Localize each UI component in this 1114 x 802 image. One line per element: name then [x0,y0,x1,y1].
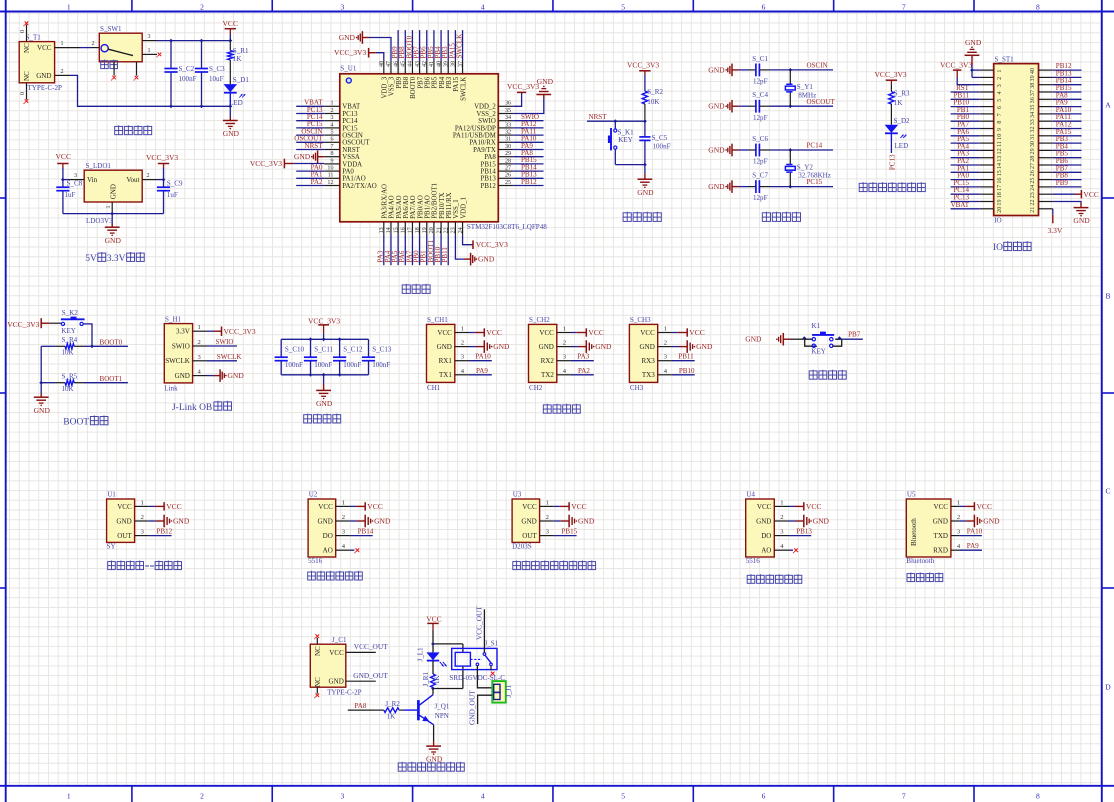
svg-text:4: 4 [330,122,333,128]
svg-text:AO: AO [323,547,333,555]
svg-text:Bluetooth: Bluetooth [906,557,934,565]
svg-text:J_J1: J_J1 [505,684,513,697]
svg-text:S_C3: S_C3 [209,65,225,73]
svg-text:12: 12 [327,180,333,186]
svg-text:S_R1: S_R1 [233,47,249,55]
svg-text:VCC: VCC [977,502,992,511]
svg-text:42: 42 [422,61,428,67]
svg-text:PA2: PA2 [578,367,590,375]
svg-text:PB11/RX: PB11/RX [446,192,453,218]
svg-text:PA10: PA10 [475,353,491,361]
svg-text:25: 25 [505,180,511,186]
svg-text:17: 17 [408,227,414,233]
svg-text:TX3: TX3 [642,371,655,379]
svg-text:2: 2 [563,340,566,347]
svg-text:11: 11 [997,141,1003,147]
svg-text:S_Y1: S_Y1 [797,83,814,91]
svg-text:U2: U2 [309,491,318,499]
svg-text:GND: GND [537,77,554,86]
svg-text:24: 24 [1030,185,1036,191]
svg-text:18: 18 [997,192,1003,198]
svg-text:5: 5 [621,2,625,11]
svg-text:10K: 10K [62,385,75,393]
svg-text:GND: GND [318,517,333,525]
svg-text:PC13: PC13 [342,111,358,118]
svg-text:21: 21 [1030,207,1036,213]
svg-text:VCC: VCC [1083,190,1098,199]
svg-text:Vout: Vout [126,176,139,184]
svg-text:5: 5 [330,130,333,136]
svg-text:U1: U1 [107,491,116,499]
svg-text:VCC: VCC [426,615,441,624]
svg-text:S_C7: S_C7 [752,172,768,180]
svg-text:4: 4 [481,791,485,800]
svg-text:2: 2 [200,2,204,11]
svg-text:VCC: VCC [539,329,554,337]
svg-text:6: 6 [997,106,1003,109]
svg-text:10K: 10K [647,98,660,106]
svg-text:10: 10 [327,166,333,172]
svg-text:7: 7 [902,2,906,11]
svg-text:GND: GND [578,517,595,526]
svg-text:S_C10: S_C10 [285,345,305,353]
svg-text:S_C6: S_C6 [752,135,768,143]
svg-text:PA11/USB/DM: PA11/USB/DM [453,133,496,140]
svg-text:0: 0 [20,92,26,95]
svg-text:VCC: VCC [806,502,821,511]
svg-text:VCC: VCC [56,152,71,161]
svg-text:VCC_3V3: VCC_3V3 [250,159,282,168]
svg-text:GND: GND [539,343,554,351]
svg-text:PA3: PA3 [577,353,589,361]
svg-text:VCC_3V3: VCC_3V3 [146,153,178,162]
svg-text:GND: GND [493,342,510,351]
svg-text:VCC: VCC [588,328,603,337]
svg-text:DO: DO [761,532,771,540]
svg-text:VCC: VCC [166,502,181,511]
svg-text:VCC: VCC [37,44,52,52]
svg-text:37: 37 [458,61,464,67]
svg-text:39: 39 [1030,75,1036,81]
svg-text:GND: GND [521,517,536,525]
svg-text:25: 25 [1030,178,1036,184]
svg-text:GND: GND [175,372,190,380]
svg-text:1: 1 [67,791,71,800]
svg-text:PB0/AO: PB0/AO [417,195,424,219]
svg-text:VCC_OUT: VCC_OUT [474,606,483,640]
svg-text:PA12/USB/DP: PA12/USB/DP [455,125,496,132]
svg-text:PA8: PA8 [484,154,496,161]
svg-text:PA9: PA9 [476,367,488,375]
svg-text:SY: SY [107,543,116,551]
svg-text:100nF: 100nF [314,361,332,369]
svg-text:PA4/AO: PA4/AO [389,195,396,218]
svg-text:PB13: PB13 [481,176,497,183]
svg-text:8: 8 [997,121,1003,124]
svg-text:NC: NC [23,71,31,81]
svg-text:VCC: VCC [329,649,344,657]
svg-text:2: 2 [461,340,464,347]
svg-text:VCC: VCC [689,328,704,337]
svg-text:PC14: PC14 [807,142,823,150]
svg-text:3: 3 [341,791,345,800]
svg-text:GND: GND [426,755,443,764]
svg-text:8: 8 [1036,791,1040,800]
svg-text:10: 10 [997,134,1003,140]
svg-text:GND: GND [34,406,51,415]
svg-text:30: 30 [505,144,511,150]
svg-text:1uF: 1uF [167,191,178,199]
svg-text:GND: GND [696,342,713,351]
svg-text:13: 13 [997,156,1003,162]
svg-text:VBAT: VBAT [342,104,361,111]
svg-text:32.768KHz: 32.768KHz [798,172,831,180]
svg-text:17: 17 [997,185,1003,191]
svg-text:GND: GND [640,343,655,351]
svg-text:VCC_3V3: VCC_3V3 [224,327,256,336]
svg-text:CH3: CH3 [630,384,644,392]
svg-text:47: 47 [386,61,392,67]
svg-text:SWCLK: SWCLK [460,77,467,101]
svg-text:NRST: NRST [342,147,360,154]
svg-text:23: 23 [451,227,457,233]
svg-text:12pF: 12pF [753,158,768,166]
svg-text:9: 9 [997,128,1003,131]
svg-text:IO: IO [994,217,1001,225]
svg-text:KEY: KEY [61,327,75,335]
svg-text:6: 6 [762,2,766,11]
svg-text:J_S1: J_S1 [485,639,499,647]
svg-text:21: 21 [436,227,442,233]
svg-text:VCC_3V3: VCC_3V3 [627,61,659,70]
svg-text:5: 5 [997,99,1003,102]
svg-text:PA10/RX: PA10/RX [469,140,495,147]
svg-text:31: 31 [1030,134,1036,140]
svg-text:SWCLK: SWCLK [455,33,463,59]
svg-text:PA6/AO: PA6/AO [403,195,410,218]
svg-text:3.3V: 3.3V [1048,226,1063,235]
svg-text:OSCOUT: OSCOUT [342,140,370,147]
svg-text:8MHz: 8MHz [798,91,816,99]
svg-text:S_R3: S_R3 [894,89,910,97]
svg-text:SWCLK: SWCLK [217,353,243,361]
svg-text:J_L1: J_L1 [416,647,424,662]
svg-text:OUT: OUT [117,532,132,540]
svg-text:2: 2 [546,514,549,521]
svg-text:S_K2: S_K2 [62,309,79,317]
svg-text:BOOT0: BOOT0 [410,76,417,99]
svg-text:S_C1: S_C1 [752,55,768,63]
svg-text:9: 9 [330,158,333,164]
svg-text:10K: 10K [62,349,75,357]
svg-text:1: 1 [342,499,345,506]
svg-text:2: 2 [141,514,144,521]
svg-text:VCC: VCC [934,503,949,511]
svg-text:VCC: VCC [486,328,501,337]
svg-text:15: 15 [997,170,1003,176]
svg-text:S_H1: S_H1 [165,315,182,323]
svg-text:40: 40 [436,61,442,67]
svg-text:7: 7 [997,113,1003,116]
svg-text:VDD_1: VDD_1 [460,197,467,219]
svg-text:VSS_1: VSS_1 [453,199,460,219]
svg-text:32: 32 [505,130,511,136]
svg-text:6: 6 [762,791,766,800]
svg-text:Link: Link [164,385,178,393]
svg-text:GND: GND [708,146,725,155]
svg-text:2: 2 [200,791,204,800]
svg-text:PB6: PB6 [424,76,431,88]
svg-text:100nF: 100nF [653,142,671,150]
svg-text:GND: GND [316,399,333,408]
svg-text:OSCIN: OSCIN [342,133,363,140]
svg-text:1: 1 [198,324,201,331]
svg-text:35: 35 [505,108,511,114]
svg-text:RX1: RX1 [439,357,453,365]
svg-text:GND: GND [595,342,612,351]
svg-text:PB11: PB11 [441,247,449,263]
svg-text:5V: 5V [85,254,97,264]
svg-text:RX2: RX2 [541,357,555,365]
svg-text:GND: GND [116,517,131,525]
svg-text:VCC: VCC [223,19,238,28]
svg-text:GND: GND [708,102,725,111]
svg-text:STM32F103C8T6_LQFP48: STM32F103C8T6_LQFP48 [467,223,547,231]
svg-text:1: 1 [330,101,333,107]
svg-text:10uF: 10uF [209,75,224,83]
svg-text:4: 4 [997,91,1003,94]
svg-text:28: 28 [1030,156,1036,162]
svg-text:PB7: PB7 [417,76,424,88]
svg-text:VCC: VCC [522,503,537,511]
svg-text:28: 28 [505,158,511,164]
svg-text:NC: NC [314,646,322,656]
svg-text:27: 27 [505,166,511,172]
svg-text:2: 2 [780,514,783,521]
svg-text:S_D2: S_D2 [894,117,911,125]
svg-text:VCC_3V3: VCC_3V3 [875,70,907,79]
svg-text:VDD_2: VDD_2 [474,104,496,111]
svg-text:26: 26 [1030,170,1036,176]
svg-text:36: 36 [505,101,511,107]
svg-text:1K: 1K [894,99,904,107]
svg-text:LDO3V3: LDO3V3 [86,217,113,225]
svg-text:NC: NC [23,43,31,53]
svg-text:3: 3 [148,34,151,40]
svg-text:2: 2 [330,108,333,114]
svg-text:U3: U3 [513,491,522,499]
svg-text:GND: GND [294,152,311,161]
svg-text:PC14: PC14 [342,118,358,125]
svg-text:3: 3 [341,2,345,11]
svg-text:GND: GND [228,371,245,380]
svg-text:14: 14 [997,163,1003,169]
svg-text:TYPE-C-2P: TYPE-C-2P [28,84,63,92]
svg-text:34: 34 [505,115,511,121]
svg-text:VCC_3V3: VCC_3V3 [507,82,539,91]
svg-text:S_R5: S_R5 [62,372,78,380]
svg-text:Bluetooth: Bluetooth [910,518,918,546]
svg-text:S_R4: S_R4 [62,336,78,344]
svg-text:48: 48 [379,61,385,67]
svg-text:J-Link OB: J-Link OB [172,403,212,413]
svg-text:11: 11 [328,173,334,179]
svg-text:S_C11: S_C11 [314,345,333,353]
svg-text:1: 1 [546,499,549,506]
svg-text:8: 8 [330,151,333,157]
svg-text:BOOT: BOOT [63,417,89,427]
svg-text:PB14: PB14 [481,169,497,176]
svg-text:5516: 5516 [308,557,323,565]
svg-text:GND: GND [708,65,725,74]
svg-text:1: 1 [997,70,1003,73]
svg-text:PB11: PB11 [678,353,694,361]
svg-text:15: 15 [393,227,399,233]
svg-text:29: 29 [505,151,511,157]
svg-text:PC13: PC13 [888,154,896,170]
svg-text:PB3: PB3 [446,76,453,88]
svg-text:PA8: PA8 [355,702,367,710]
svg-text:8: 8 [1036,2,1040,11]
svg-text:OSCIN: OSCIN [807,62,828,70]
svg-text:PB5: PB5 [432,76,439,88]
svg-text:GND: GND [708,182,725,191]
svg-text:2: 2 [198,339,201,346]
svg-text:5516: 5516 [746,557,761,565]
svg-text:D: D [1105,683,1111,692]
svg-text:PA15: PA15 [453,76,460,92]
svg-text:GND: GND [374,517,391,526]
svg-text:18: 18 [415,227,421,233]
svg-text:1: 1 [957,499,960,506]
svg-text:100nF: 100nF [179,75,197,83]
svg-text:S_D1: S_D1 [233,76,250,84]
svg-text:VSS_2: VSS_2 [476,111,496,118]
svg-text:12pF: 12pF [753,78,768,86]
svg-text:12pF: 12pF [753,194,768,202]
svg-text:1: 1 [106,205,112,208]
svg-text:TYPE-C-2P: TYPE-C-2P [327,689,362,697]
svg-text:PA7/AO: PA7/AO [410,195,417,218]
svg-text:PA9/TX: PA9/TX [473,147,496,154]
svg-text:VCC: VCC [117,503,132,511]
svg-text:GND: GND [745,335,762,344]
svg-text:VCC: VCC [318,503,333,511]
svg-text:VCC: VCC [367,502,382,511]
svg-text:38: 38 [1030,83,1036,89]
svg-text:29: 29 [1030,148,1036,154]
svg-text:2: 2 [147,173,150,179]
svg-text:J_R2: J_R2 [385,700,400,708]
svg-text:VSSA: VSSA [342,154,360,161]
svg-text:PA10: PA10 [967,528,983,536]
svg-text:BOOT0: BOOT0 [100,339,123,347]
svg-text:PB1/AO: PB1/AO [424,195,431,219]
svg-text:GND: GND [983,517,1000,526]
svg-text:46: 46 [393,61,399,67]
svg-text:SWCLK: SWCLK [165,357,191,365]
svg-text:VDD_3: VDD_3 [382,76,389,98]
svg-text:PB2/BOOT1: PB2/BOOT1 [432,182,439,218]
svg-text:GND: GND [637,188,654,197]
svg-text:S_T1: S_T1 [26,33,42,41]
svg-text:20: 20 [997,207,1003,213]
svg-text:TX2: TX2 [541,371,554,379]
svg-text:20: 20 [429,227,435,233]
svg-text:VSS_3: VSS_3 [389,76,396,96]
svg-text:B: B [1105,291,1110,300]
svg-text:1: 1 [67,2,71,11]
svg-text:PA1/AO: PA1/AO [342,176,365,183]
svg-text:1K: 1K [233,55,243,63]
svg-text:VCC_3V3: VCC_3V3 [940,60,972,69]
svg-text:PA2: PA2 [311,178,323,186]
svg-text:0: 0 [20,30,26,33]
svg-text:S_CH1: S_CH1 [427,316,448,324]
svg-text:TX1: TX1 [439,371,452,379]
svg-text:CH2: CH2 [529,384,543,392]
svg-text:GND: GND [478,255,495,264]
svg-text:24: 24 [458,227,464,233]
svg-text:PA0: PA0 [342,169,354,176]
svg-text:1: 1 [148,48,151,54]
svg-text:AO: AO [761,547,771,555]
svg-text:KEY: KEY [811,348,825,356]
svg-text:PB9: PB9 [1056,179,1069,187]
svg-text:SWIO: SWIO [172,342,190,350]
svg-text:1K: 1K [433,674,441,684]
svg-text:IO: IO [993,243,1003,253]
svg-text:PC15: PC15 [342,125,358,132]
svg-text:S_Y2: S_Y2 [797,163,814,171]
svg-text:PA3/RX/AO: PA3/RX/AO [382,184,389,219]
svg-text:22: 22 [1030,199,1036,205]
svg-text:S_CH3: S_CH3 [630,316,651,324]
svg-text:PA2/TX/AO: PA2/TX/AO [342,183,376,190]
svg-text:3.3V: 3.3V [176,328,191,336]
svg-text:J_R1: J_R1 [422,672,430,687]
svg-text:2: 2 [342,514,345,521]
svg-text:Vin: Vin [87,176,98,184]
svg-text:VCC_3V3: VCC_3V3 [334,48,366,57]
svg-text:RXD: RXD [933,547,948,555]
svg-text:PB12: PB12 [521,178,537,186]
svg-text:GND: GND [36,72,51,80]
svg-text:GND: GND [339,33,356,42]
svg-text:S_ST1: S_ST1 [995,55,1015,63]
svg-text:33: 33 [505,122,511,128]
svg-text:RX3: RX3 [641,357,655,365]
svg-text:3.3V: 3.3V [107,254,126,264]
svg-text:VCC: VCC [757,503,772,511]
svg-text:VCC: VCC [640,329,655,337]
svg-text:NC: NC [314,677,322,687]
svg-text:2: 2 [957,514,960,521]
svg-text:A: A [1105,101,1111,110]
svg-text:S_C8: S_C8 [67,179,83,187]
svg-text:PB12: PB12 [157,528,173,536]
svg-text:PB15: PB15 [481,161,497,168]
svg-text:35: 35 [1030,105,1036,111]
svg-text:19: 19 [997,199,1003,205]
svg-text:31: 31 [505,137,511,143]
svg-text:3: 3 [74,173,77,179]
svg-text:GND: GND [173,517,190,526]
svg-text:100nF: 100nF [372,361,390,369]
svg-text:1: 1 [563,326,566,333]
svg-text:2: 2 [61,69,64,75]
svg-text:2: 2 [997,77,1003,80]
